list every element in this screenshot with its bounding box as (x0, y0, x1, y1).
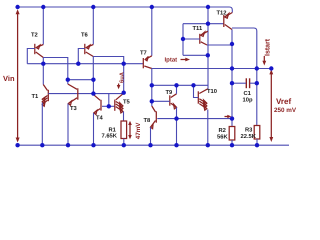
transistor T1 (NPN multi-emitter, mirrored) (42, 85, 48, 107)
transistor T7 (PNP) (143, 56, 152, 69)
wire T2 collector down (42, 58, 44, 64)
wire T6 emitter drop (92, 7, 94, 45)
wire T3/T4 collector link (68, 79, 94, 81)
wire Iptat/Vref horizontal (152, 68, 271, 70)
wire T11 collector to x232 (207, 44, 232, 46)
wire T12 collector down to R2 (231, 30, 233, 127)
wire T1 emitter down (41, 103, 43, 146)
svg-text:Iptat: Iptat (165, 57, 178, 64)
transistor T10 (NPN multi-emitter) (198, 89, 208, 110)
transistor T4 (NPN mirrored) (93, 94, 101, 114)
wire T7 collector drop (151, 69, 153, 102)
svg-text:Vin: Vin (3, 74, 15, 83)
transistor T11 (PNP) (200, 31, 208, 45)
resistor R3 (254, 126, 260, 140)
small red arrow above R2 (225, 115, 232, 118)
wire T4 emitter down (93, 113, 95, 145)
svg-text:T11: T11 (193, 26, 203, 32)
svg-text:T6: T6 (81, 32, 89, 39)
wire base riser x108.8 (108, 94, 110, 107)
Istart arrow (262, 56, 266, 66)
svg-text:T12: T12 (217, 9, 227, 16)
svg-text:Vref: Vref (276, 97, 291, 106)
annotation 6uA arrow (117, 84, 121, 90)
wire T2 emitter drop (42, 7, 44, 45)
wire C1 left (232, 82, 246, 84)
Vref arrow (269, 69, 273, 142)
svg-text:T10: T10 (207, 88, 217, 95)
wire base bus y63.7 (27, 63, 143, 65)
wire T9 collector riser (176, 85, 178, 94)
startup T11 loop wires (182, 24, 184, 56)
wire T12 collector to Istart branch (232, 28, 257, 126)
transistor T6 (PNP) (85, 44, 94, 57)
wire T9 base (152, 100, 170, 102)
svg-text:T8: T8 (144, 117, 152, 124)
transistor T8 (NPN mirrored) (151, 106, 157, 129)
svg-text:22.5K: 22.5K (241, 133, 257, 140)
svg-text:Istart: Istart (265, 38, 272, 56)
svg-text:T2: T2 (31, 32, 38, 39)
wire T8 emitter down (150, 127, 152, 145)
resistor R2 (229, 127, 235, 141)
wire R1 bottom (123, 139, 125, 146)
wire C1 right (250, 82, 257, 84)
wire T6 base (78, 49, 85, 64)
wire T9/T10 base bus y85.3 (152, 84, 208, 86)
annotation 47mV double arrow (128, 121, 132, 140)
svg-text:T3: T3 (70, 105, 78, 112)
svg-text:T1: T1 (32, 94, 40, 100)
svg-text:T9: T9 (166, 89, 174, 96)
svg-text:7.65K: 7.65K (102, 133, 118, 140)
wire T10 base riser (194, 85, 199, 97)
top rail (18, 7, 233, 13)
wire T4 collector riser (92, 80, 94, 95)
svg-text:47mV: 47mV (135, 122, 142, 140)
svg-text:56K: 56K (217, 134, 228, 141)
wire T3 emitter down (67, 104, 69, 146)
resistor R1 (121, 121, 127, 139)
transistor T12 (PNP) (224, 13, 233, 30)
wire R2 bottom (231, 140, 233, 145)
svg-text:T5: T5 (123, 100, 131, 106)
wire R3 bottom (256, 139, 258, 145)
transistor T3 (NPN mirrored) (68, 84, 78, 105)
transistor T5 (NPN multi-emitter) (115, 93, 124, 113)
svg-text:6uA: 6uA (118, 71, 125, 83)
wire T6 collector right then down (93, 57, 123, 93)
svg-text:C1: C1 (244, 90, 252, 97)
capacitor C1 (246, 78, 249, 88)
wire T4/T5 base link (102, 105, 115, 107)
svg-text:10p: 10p (243, 97, 253, 104)
Vin arrow (16, 9, 20, 142)
wire T8 base / R2 feed (157, 118, 232, 120)
wire T11 base (183, 38, 200, 40)
wire T6 collector down to T4 collector riser (92, 57, 94, 80)
wire T10 emitter down (207, 110, 209, 146)
transistor T9 (NPN) (170, 94, 177, 109)
wire T5 emitter to R1 (123, 112, 125, 122)
svg-text:250 mV: 250 mV (274, 107, 297, 114)
wire T1 collector riser (42, 64, 44, 85)
wire T2 base (27, 49, 35, 64)
wire T7 emitter drop (151, 7, 153, 56)
svg-text:R2: R2 (219, 127, 226, 134)
wire T8 collector riser (151, 101, 153, 106)
wire T2 collector right then down to T3 collector node (43, 58, 68, 85)
svg-text:T7: T7 (140, 51, 147, 57)
bottom rail (18, 144, 289, 146)
svg-text:R3: R3 (245, 127, 253, 134)
wire T9 emitter down (176, 107, 178, 145)
wire base bus T1-T3-T4 riser (48, 93, 123, 95)
transistor T2 (PNP) (35, 44, 44, 58)
Iptat arrow (181, 58, 191, 62)
svg-text:T4: T4 (96, 116, 104, 122)
wire startup vertical x208 (207, 7, 209, 89)
